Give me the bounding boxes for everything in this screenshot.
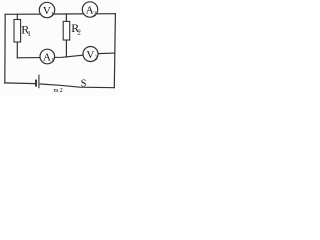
- svg-text:1: 1: [51, 12, 54, 18]
- svg-text:2: 2: [95, 56, 98, 62]
- svg-text:S: S: [81, 78, 87, 89]
- svg-text:V: V: [86, 49, 94, 61]
- svg-text:A: A: [43, 51, 51, 63]
- svg-text:2: 2: [93, 12, 96, 18]
- svg-text:2: 2: [77, 29, 81, 37]
- svg-text:V: V: [43, 5, 51, 17]
- svg-text:1: 1: [27, 30, 31, 38]
- svg-text:m2: m2: [54, 87, 64, 94]
- svg-text:1: 1: [51, 58, 54, 64]
